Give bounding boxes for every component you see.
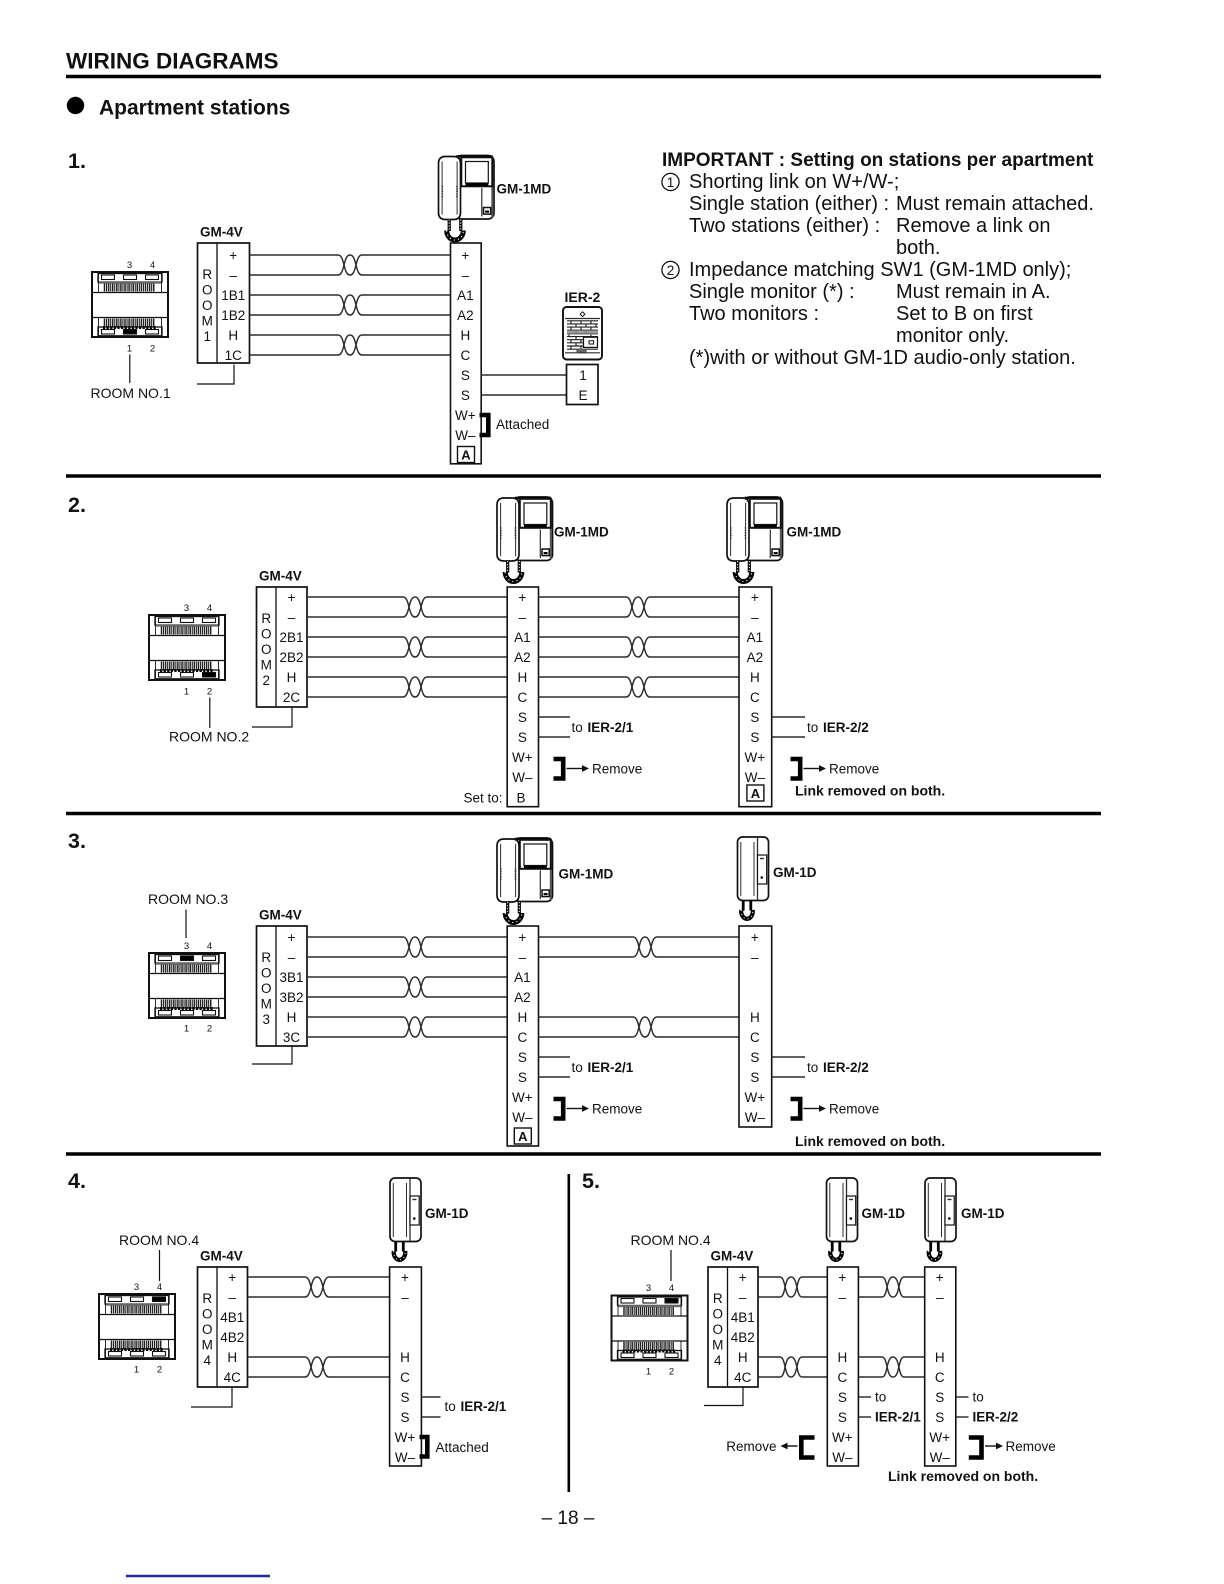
leader elbow from GM-4V (section 3) (252, 1047, 292, 1065)
svg-text:IER-2/2: IER-2/2 (823, 1060, 869, 1075)
svg-text:O: O (261, 981, 272, 996)
svg-text:4B1: 4B1 (731, 1310, 755, 1325)
svg-text:1: 1 (203, 329, 211, 344)
svg-text:Remove: Remove (726, 1439, 776, 1454)
wire S stub no.1b (section 5) (858, 1416, 871, 1418)
wire S stub a (section 4) (421, 1396, 440, 1398)
svg-text:3: 3 (134, 1282, 139, 1293)
room adaptor ROOM NO.3 (149, 953, 225, 1018)
station terminal strip GM-1MD no.2 (section 2) (739, 587, 772, 807)
GM-4V terminal block (ROOM 2) (257, 587, 308, 707)
section divider rule between 4 and 5 (567, 1174, 570, 1492)
switch position A (section 3) (514, 1128, 531, 1144)
leader elbow from GM-4V (section 5) (704, 1387, 743, 1406)
wire twisted pair 3B1/3B2 run 1 (section 3) (307, 977, 507, 997)
svg-text:4: 4 (714, 1353, 722, 1368)
svg-text:Impedance matching SW1 (GM-1MD: Impedance matching SW1 (GM-1MD only); (689, 259, 1071, 281)
station terminal strip GM-1D (section 4) (390, 1267, 422, 1466)
svg-text:Remove a link on: Remove a link on (896, 215, 1051, 237)
svg-text:ROOM NO.3: ROOM NO.3 (148, 891, 228, 907)
svg-text:W–: W– (395, 1450, 416, 1465)
GM-4V terminal block (ROOM 4) (708, 1267, 758, 1387)
svg-text:–: – (288, 950, 296, 965)
svg-text:Remove: Remove (1006, 1439, 1056, 1454)
svg-text:S: S (518, 710, 527, 725)
svg-text:2B2: 2B2 (279, 650, 303, 665)
svg-text:ROOM NO.4: ROOM NO.4 (631, 1232, 711, 1248)
wire twisted pair H/1C (section 1) (250, 335, 451, 355)
switch position A (section 2) (747, 785, 764, 801)
svg-text:W+: W+ (832, 1430, 853, 1445)
svg-text:IER-2/1: IER-2/1 (875, 1410, 921, 1425)
leader to pin 4 (section 4) (159, 1250, 161, 1281)
svg-text:O: O (261, 626, 272, 641)
svg-text:Link removed on both.: Link removed on both. (795, 783, 945, 799)
svg-text:Must remain attached.: Must remain attached. (896, 193, 1094, 215)
svg-text:–: – (401, 1290, 409, 1305)
station terminal strip GM-1D no.2 (section 5) (925, 1267, 956, 1466)
svg-text:Single monitor (*) :: Single monitor (*) : (689, 281, 855, 303)
wire S to IER-2 terminal 1 (481, 374, 566, 376)
svg-text:H: H (750, 1010, 760, 1025)
svg-text:O: O (202, 1322, 213, 1337)
svg-text:1: 1 (134, 1365, 139, 1376)
svg-text:O: O (712, 1306, 723, 1321)
svg-text:H: H (460, 328, 470, 343)
apartment station GM-1D (section 3) (738, 837, 769, 919)
arrow remove no.1 (section 3) (567, 1105, 590, 1112)
svg-text:R: R (261, 950, 271, 965)
note line 7 (689, 303, 1033, 325)
svg-text:1C: 1C (225, 348, 243, 363)
svg-text:Remove: Remove (829, 1102, 879, 1117)
svg-text:A1: A1 (514, 970, 531, 985)
room adaptor ROOM NO.4 (section 4) (99, 1294, 175, 1359)
svg-text:GM-1MD: GM-1MD (497, 182, 552, 197)
note item 2 circled digit (662, 261, 679, 278)
svg-text:O: O (202, 298, 213, 313)
svg-text:2.: 2. (68, 493, 86, 517)
svg-text:W–: W– (512, 1110, 533, 1125)
svg-text:C: C (517, 1030, 527, 1045)
svg-text:H: H (837, 1350, 847, 1365)
svg-text:W+: W+ (512, 750, 533, 765)
svg-text:H: H (287, 1010, 297, 1025)
svg-text:–: – (228, 1290, 236, 1305)
svg-text:W+: W+ (395, 1430, 416, 1445)
title rule (66, 75, 1101, 79)
svg-text:M: M (261, 996, 272, 1011)
svg-text:S: S (461, 388, 470, 403)
leader to pin 3 (185, 910, 187, 939)
svg-text:H: H (750, 670, 760, 685)
svg-text:R: R (202, 267, 212, 282)
arrow remove no.2 (section 2) (804, 765, 827, 772)
svg-text:R: R (202, 1291, 212, 1306)
svg-text:3.: 3. (68, 829, 86, 853)
svg-text:3C: 3C (283, 1030, 301, 1045)
wire twisted pair +/&#8722; (section 1) (250, 255, 451, 275)
apartment station GM-1MD no.1 (section 2) (497, 497, 553, 582)
wire twisted pair +/&#8722; run 1 (section 2) (307, 597, 507, 617)
apartment station GM-1MD (section 3) (497, 838, 553, 923)
svg-text:–: – (288, 610, 296, 625)
svg-text:IER-2/2: IER-2/2 (973, 1410, 1019, 1425)
svg-text:GM-4V: GM-4V (200, 1249, 243, 1264)
svg-text:2: 2 (150, 344, 155, 355)
label to IER-2/1 (section 4) (445, 1399, 507, 1414)
svg-text:A: A (461, 448, 471, 463)
wire twisted pair +/&#8722; run 2 (section 3) (539, 937, 740, 957)
svg-text:+: + (739, 1270, 747, 1285)
svg-text:O: O (202, 282, 213, 297)
svg-text:C: C (400, 1370, 410, 1385)
svg-text:4: 4 (207, 941, 212, 952)
svg-text:to: to (445, 1399, 456, 1414)
wire S stub no.2b (section 2) (772, 736, 805, 738)
svg-text:–: – (462, 268, 470, 283)
station terminal strip GM-1MD no.1 (section 2) (507, 587, 538, 807)
svg-text:IER-2/1: IER-2/1 (461, 1399, 507, 1414)
svg-text:3: 3 (127, 260, 132, 271)
svg-text:WIRING DIAGRAMS: WIRING DIAGRAMS (66, 49, 279, 74)
apartment station GM-1D no.1 (section 5) (827, 1178, 858, 1260)
shorting link removed no.2 (section 3) (791, 1099, 801, 1119)
svg-text:2B1: 2B1 (279, 630, 303, 645)
svg-text:A1: A1 (747, 630, 764, 645)
GM-4V terminal block (ROOM 4) (198, 1267, 248, 1387)
svg-text:Attached: Attached (436, 1440, 489, 1455)
wire twisted pair +/&#8722; run 1 (section 5) (758, 1277, 827, 1297)
svg-text:to: to (973, 1390, 984, 1405)
shorting link removed no.1 (section 3) (554, 1099, 564, 1119)
shorting link attached (section 4) (420, 1437, 428, 1457)
wire twisted pair H/C run 2 (section 5) (858, 1357, 924, 1377)
svg-text:Link removed on both.: Link removed on both. (888, 1468, 1038, 1484)
svg-text:to: to (807, 720, 818, 735)
svg-text:+: + (288, 930, 296, 945)
svg-text:GM-1D: GM-1D (961, 1206, 1005, 1221)
room adaptor ROOM NO.4 (section 5) (612, 1296, 688, 1361)
shorting link attached (section 1) (480, 415, 489, 435)
GM-4V terminal block (ROOM 1) (198, 243, 250, 363)
svg-text:S: S (400, 1410, 409, 1425)
apartment station GM-1D no.2 (section 5) (925, 1178, 956, 1260)
svg-text:–: – (519, 950, 527, 965)
svg-text:Link removed on both.: Link removed on both. (795, 1133, 945, 1149)
svg-text:2C: 2C (283, 690, 301, 705)
svg-text:R: R (713, 1291, 723, 1306)
svg-text:H: H (517, 1010, 527, 1025)
wire twisted pair 1B1/1B2 (section 1) (250, 295, 451, 315)
svg-text:1: 1 (646, 1367, 651, 1378)
svg-text:W+: W+ (929, 1430, 950, 1445)
svg-text:H: H (228, 328, 238, 343)
svg-text:1: 1 (127, 344, 132, 355)
svg-text:W–: W– (745, 1110, 766, 1125)
svg-text:4: 4 (150, 260, 155, 271)
room adaptor ROOM NO.2 (149, 615, 225, 680)
svg-text:+: + (751, 590, 759, 605)
svg-text:+: + (229, 248, 237, 263)
svg-text:5.: 5. (582, 1169, 600, 1193)
wire twisted pair +/&#8722; run 1 (section 3) (307, 937, 507, 957)
svg-text:GM-1D: GM-1D (425, 1206, 469, 1221)
svg-text:4C: 4C (734, 1370, 752, 1385)
wire twisted pair H/4C run 1 (section 5) (758, 1357, 827, 1377)
svg-text:GM-1D: GM-1D (862, 1206, 906, 1221)
svg-text:GM-1MD: GM-1MD (554, 525, 609, 540)
svg-text:Set to:: Set to: (464, 791, 503, 806)
svg-text:Remove: Remove (592, 762, 642, 777)
svg-text:3: 3 (184, 941, 189, 952)
arrow remove no.1 (section 2) (567, 765, 590, 772)
svg-text:H: H (517, 670, 527, 685)
svg-text:W+: W+ (745, 1090, 766, 1105)
svg-text:M: M (202, 1337, 213, 1352)
svg-text:3: 3 (262, 1012, 270, 1027)
svg-text:+: + (751, 930, 759, 945)
svg-text:1.: 1. (68, 149, 86, 173)
svg-text:–: – (936, 1290, 944, 1305)
svg-text:S: S (750, 730, 759, 745)
svg-text:4: 4 (203, 1353, 211, 1368)
svg-text:to: to (875, 1390, 886, 1405)
svg-text:A1: A1 (514, 630, 531, 645)
svg-text:–: – (839, 1290, 847, 1305)
svg-text:H: H (935, 1350, 945, 1365)
svg-text:C: C (750, 690, 760, 705)
svg-text:to: to (572, 720, 583, 735)
svg-text:W–: W– (455, 428, 476, 443)
leader from pin 2 (209, 698, 211, 729)
wire twisted pair H/C run 2 (section 3) (539, 1017, 740, 1037)
svg-text:2: 2 (157, 1365, 162, 1376)
station terminal strip GM-1D (section 3) (739, 926, 772, 1127)
svg-text:1: 1 (184, 1024, 189, 1035)
svg-text:S: S (750, 1050, 759, 1065)
svg-text:monitor only.: monitor only. (896, 325, 1009, 347)
shorting link removed no.1 (section 5) (801, 1438, 814, 1458)
svg-text:H: H (738, 1350, 748, 1365)
svg-text:–: – (229, 268, 237, 283)
svg-text:IER-2: IER-2 (565, 289, 601, 305)
wire S stub b (section 4) (421, 1416, 440, 1418)
svg-text:IER-2/1: IER-2/1 (588, 720, 634, 735)
svg-text:W–: W– (512, 770, 533, 785)
leader elbow from GM-4V (section 4) (191, 1388, 232, 1408)
svg-text:1B1: 1B1 (221, 288, 245, 303)
svg-text:A: A (518, 1129, 528, 1144)
svg-text:A2: A2 (747, 650, 764, 665)
wire twisted pair +/&#8722; run 2 (section 2) (539, 597, 740, 617)
svg-text:4B2: 4B2 (220, 1330, 244, 1345)
svg-text:–: – (751, 610, 759, 625)
svg-text:2: 2 (669, 1367, 674, 1378)
svg-text:Shorting link on W+/W-;: Shorting link on W+/W-; (689, 171, 899, 193)
separator rule 3 (66, 1152, 1101, 1156)
svg-text:3B1: 3B1 (279, 970, 303, 985)
svg-text:–: – (751, 950, 759, 965)
wire twisted pair H/4C (section 4) (248, 1357, 390, 1377)
svg-text:1B2: 1B2 (221, 308, 245, 323)
svg-text:A: A (751, 786, 761, 801)
svg-text:C: C (460, 348, 470, 363)
sounder IER-2 icon (563, 307, 602, 360)
svg-text:H: H (227, 1350, 237, 1365)
wire twisted pair A1/A2 run 2 (section 2) (539, 637, 740, 657)
svg-text:S: S (935, 1410, 944, 1425)
svg-text:3: 3 (184, 603, 189, 614)
svg-text:1: 1 (184, 687, 189, 698)
svg-text:S: S (838, 1410, 847, 1425)
wire S stub no.1b (section 2) (539, 736, 571, 738)
svg-text:to: to (807, 1060, 818, 1075)
svg-text:ROOM NO.2: ROOM NO.2 (169, 729, 249, 745)
leader from pin 1 (129, 355, 131, 384)
svg-text:Remove: Remove (592, 1102, 642, 1117)
svg-text:GM-4V: GM-4V (200, 225, 243, 240)
svg-text:S: S (750, 1070, 759, 1085)
svg-text:W–: W– (930, 1450, 951, 1465)
svg-text:4: 4 (669, 1283, 674, 1294)
arrow remove no.2 (section 5) (985, 1443, 1003, 1450)
svg-text:– 18 –: – 18 – (542, 1508, 595, 1529)
svg-text:2: 2 (207, 687, 212, 698)
svg-text:Single station (either) :: Single station (either) : (689, 193, 889, 215)
svg-text:W–: W– (832, 1450, 853, 1465)
GM-4V terminal block (ROOM 3) (257, 926, 308, 1046)
svg-text:S: S (461, 368, 470, 383)
wire twisted pair H/C run 2 (section 2) (539, 677, 740, 697)
wire S stub no.1b (section 3) (539, 1076, 571, 1078)
wire S stub no.2a (section 2) (772, 716, 805, 718)
svg-text:A2: A2 (514, 990, 531, 1005)
svg-text:H: H (287, 670, 297, 685)
svg-text:Two monitors :: Two monitors : (689, 303, 819, 325)
svg-text:GM-4V: GM-4V (259, 569, 302, 584)
svg-text:O: O (261, 965, 272, 980)
svg-text:M: M (202, 313, 213, 328)
svg-text:2: 2 (262, 673, 270, 688)
switch position A (section 1) (458, 447, 475, 463)
label to IER-2/2 (section 2) (807, 720, 869, 735)
svg-text:Apartment stations: Apartment stations (99, 97, 290, 120)
footer mark (126, 1575, 270, 1577)
svg-text:A2: A2 (514, 650, 531, 665)
svg-text:S: S (400, 1390, 409, 1405)
svg-text:A1: A1 (457, 288, 474, 303)
svg-text:M: M (261, 657, 272, 672)
svg-text:3: 3 (646, 1283, 651, 1294)
svg-text:4C: 4C (224, 1370, 242, 1385)
svg-text:O: O (261, 642, 272, 657)
svg-text:+: + (936, 1270, 944, 1285)
svg-text:S: S (518, 730, 527, 745)
svg-text:C: C (750, 1030, 760, 1045)
shorting link removed no.2 (section 2) (791, 759, 801, 779)
note line 6 (689, 281, 1051, 303)
svg-text:–: – (519, 610, 527, 625)
svg-text:B: B (516, 791, 525, 806)
svg-text:H: H (400, 1350, 410, 1365)
station terminal strip GM-1MD (section 3) (507, 926, 538, 1146)
wire twisted pair +/&#8722; run 2 (section 5) (858, 1277, 924, 1297)
svg-text:4B1: 4B1 (220, 1310, 244, 1325)
svg-text:E: E (578, 388, 587, 403)
svg-text:–: – (739, 1290, 747, 1305)
svg-text:S: S (750, 710, 759, 725)
svg-text:Attached: Attached (496, 417, 549, 432)
separator rule 1 (66, 474, 1101, 478)
svg-text:+: + (401, 1270, 409, 1285)
svg-text:C: C (517, 690, 527, 705)
apartment station GM-1D (section 4) (390, 1178, 421, 1260)
IER-2 terminal box (567, 365, 599, 405)
svg-text:C: C (837, 1370, 847, 1385)
wire S stub no.2a (section 3) (772, 1056, 805, 1058)
wire twisted pair H/3C run 1 (section 3) (307, 1017, 507, 1037)
svg-text:+: + (518, 590, 526, 605)
svg-text:IER-2/2: IER-2/2 (823, 720, 869, 735)
wire S stub no.1a (section 2) (539, 716, 571, 718)
svg-text:Remove: Remove (829, 762, 879, 777)
svg-text:+: + (461, 248, 469, 263)
svg-text:IER-2/1: IER-2/1 (588, 1060, 634, 1075)
svg-text:(*)with or without GM-1D audio: (*)with or without GM-1D audio-only stat… (689, 347, 1076, 369)
svg-text:Must remain in A.: Must remain in A. (896, 281, 1051, 303)
svg-text:Set to B on first: Set to B on first (896, 303, 1033, 325)
svg-text:O: O (202, 1306, 213, 1321)
room adaptor ROOM NO.1 (92, 272, 168, 337)
svg-text:4B2: 4B2 (731, 1330, 755, 1345)
svg-text:to: to (572, 1060, 583, 1075)
wire S stub no.2a (section 5) (956, 1396, 969, 1398)
label to IER-2/1 (section 2) (572, 720, 634, 735)
station terminal strip GM-1MD (section 1) (451, 243, 482, 464)
wire S stub no.2b (section 3) (772, 1076, 805, 1078)
svg-text:W+: W+ (745, 750, 766, 765)
svg-text:2: 2 (207, 1024, 212, 1035)
wire twisted pair 2B1/2B2 run 1 (section 2) (307, 637, 507, 657)
svg-text:IMPORTANT : Setting on station: IMPORTANT : Setting on stations per apar… (662, 150, 1094, 171)
svg-text:R: R (261, 611, 271, 626)
note item 1 circled digit (662, 173, 679, 190)
svg-text:3B2: 3B2 (279, 990, 303, 1005)
wire twisted pair H/2C run 1 (section 2) (307, 677, 507, 697)
leader elbow from GM-4V (section 2) (252, 708, 292, 728)
arrow remove no.2 (section 3) (804, 1105, 827, 1112)
svg-text:both.: both. (896, 237, 940, 259)
svg-text:W+: W+ (512, 1090, 533, 1105)
svg-text:GM-1MD: GM-1MD (787, 525, 842, 540)
svg-text:S: S (518, 1070, 527, 1085)
svg-text:ROOM NO.4: ROOM NO.4 (119, 1232, 199, 1248)
svg-text:GM-1D: GM-1D (773, 865, 817, 880)
svg-text:A2: A2 (457, 308, 474, 323)
svg-text:+: + (288, 590, 296, 605)
svg-text:4.: 4. (68, 1169, 86, 1193)
svg-text:O: O (712, 1322, 723, 1337)
svg-text:1: 1 (667, 175, 675, 190)
svg-text:Two stations (either) :: Two stations (either) : (689, 215, 880, 237)
svg-text:4: 4 (207, 603, 212, 614)
shorting link removed no.2 (section 5) (969, 1438, 982, 1458)
station terminal strip GM-1D no.1 (section 5) (827, 1267, 858, 1466)
wire S stub no.2b (section 5) (956, 1416, 969, 1418)
separator rule 2 (66, 812, 1101, 816)
svg-text:1: 1 (579, 368, 587, 383)
